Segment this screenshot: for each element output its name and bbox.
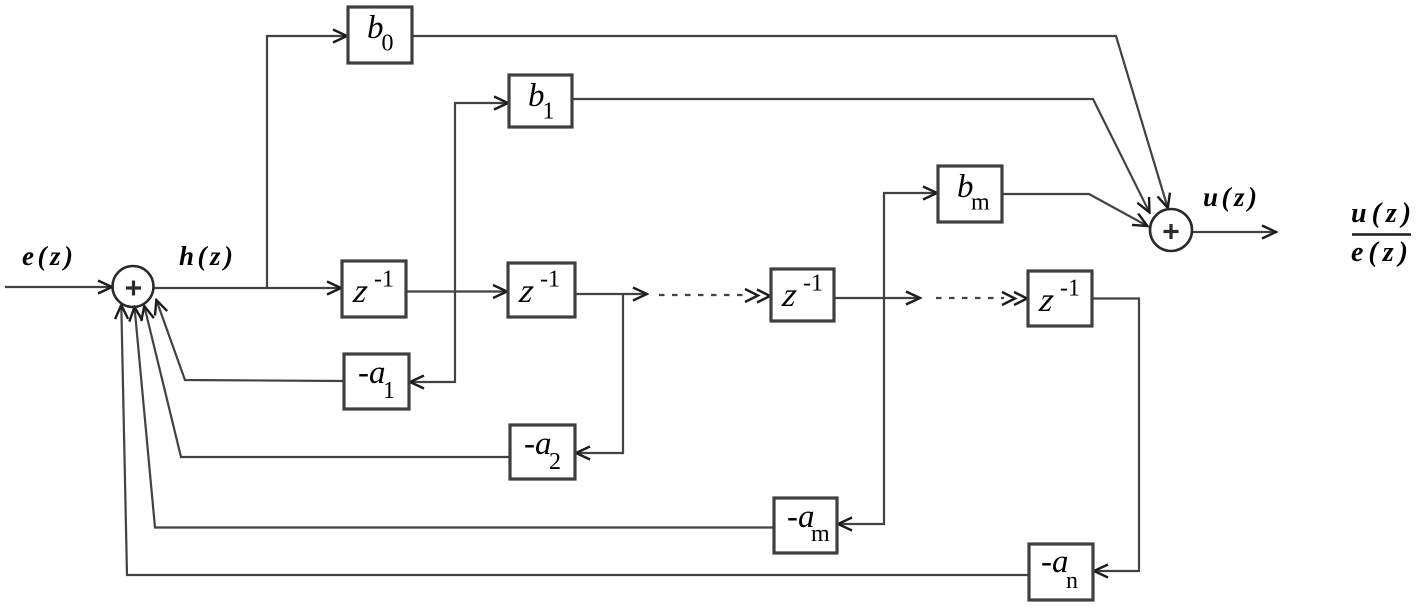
wire tap T3 down to coeff -am (839, 298, 884, 524)
coeff block -a1 box (344, 354, 409, 409)
wire tap T1 vertical down to coeff -a1 (411, 292, 455, 383)
svg-text:2: 2 (549, 449, 561, 475)
chevron arrowhead into delay Z3 (outer) (745, 289, 758, 302)
wire coeff -an output back to summer S1 (121, 306, 1029, 575)
gain block b1 box (509, 75, 572, 127)
wire b0 output to summer S2 (412, 36, 1168, 207)
wire S1 output h(z) to delay Z1 (154, 287, 340, 289)
svg-text:h(z): h(z) (179, 241, 237, 271)
gain block b0 box (348, 7, 412, 63)
wire bm output to summer S2 (1002, 194, 1147, 226)
wire b1 output to summer S2 (572, 99, 1149, 212)
svg-text:z: z (779, 277, 799, 314)
wire coeff -a2 output back to summer S1 (145, 307, 511, 457)
summing junction S1 (113, 266, 154, 307)
svg-text:z: z (350, 273, 370, 310)
gain block bm box (938, 166, 1002, 222)
svg-text:m: m (971, 190, 990, 216)
delay block Z1 box (342, 261, 406, 317)
svg-text:n: n (1066, 568, 1078, 594)
wire input e(z) into summer S1 (5, 286, 111, 288)
coeff block -an box (1029, 544, 1093, 600)
transfer function fraction u(z)/e(z) (1351, 198, 1416, 268)
delay block Z2 box (508, 263, 575, 317)
svg-text:-1: -1 (374, 267, 394, 293)
svg-text:u(z): u(z) (1351, 198, 1416, 229)
wire delay Z3 output with arrow (834, 297, 919, 299)
svg-text:-1: -1 (1060, 276, 1080, 302)
chevron arrowhead into delay Z4 (outer) (1002, 292, 1015, 305)
svg-text:e(z): e(z) (22, 241, 76, 271)
wire delay Z1 to delay Z2 (406, 290, 506, 292)
svg-text:m: m (811, 521, 830, 547)
chevron arrowhead into delay Z3 (inner, at box edge) (757, 290, 770, 303)
wire delay Z2 output with arrow (575, 293, 646, 295)
svg-text:-a: -a (358, 355, 386, 391)
svg-text:1: 1 (543, 99, 555, 125)
svg-text:z: z (1036, 282, 1056, 319)
wire tap T2 down to coeff -a2 (577, 294, 623, 453)
summing junction S2 (1150, 209, 1192, 251)
svg-text:0: 0 (382, 31, 394, 57)
dashed wire Z3 to Z4 (936, 297, 1004, 299)
svg-text:-a: -a (524, 426, 552, 462)
wire delay Z4 output down to coeff -an (1092, 299, 1139, 572)
wire coeff -a1 output back to summer S1 (157, 301, 344, 381)
coeff block -am box (774, 498, 837, 553)
delay block Z3 box (771, 269, 834, 321)
delay block Z4 box (1028, 271, 1092, 326)
svg-text:e(z): e(z) (1351, 237, 1413, 268)
svg-text:u(z): u(z) (1203, 182, 1261, 212)
svg-text:-1: -1 (540, 267, 560, 293)
node tap T0 and wire up to gain b0 (267, 36, 346, 288)
svg-text:1: 1 (383, 378, 395, 404)
wire tap T1 vertical up to gain b1 (455, 103, 507, 292)
dashed wire Z2 to Z3 (659, 294, 747, 296)
wire tap T3 vertical up to gain bm (884, 193, 936, 298)
svg-text:z: z (516, 273, 536, 310)
svg-text:-1: -1 (803, 271, 823, 297)
svg-text:-a: -a (1041, 544, 1069, 580)
chevron arrowhead into delay Z4 (inner, at box edge) (1014, 292, 1027, 305)
coeff block -a2 box (510, 425, 575, 479)
wire coeff -am output back to summer S1 (135, 308, 774, 528)
wire summer S2 output u(z) (1192, 231, 1275, 233)
